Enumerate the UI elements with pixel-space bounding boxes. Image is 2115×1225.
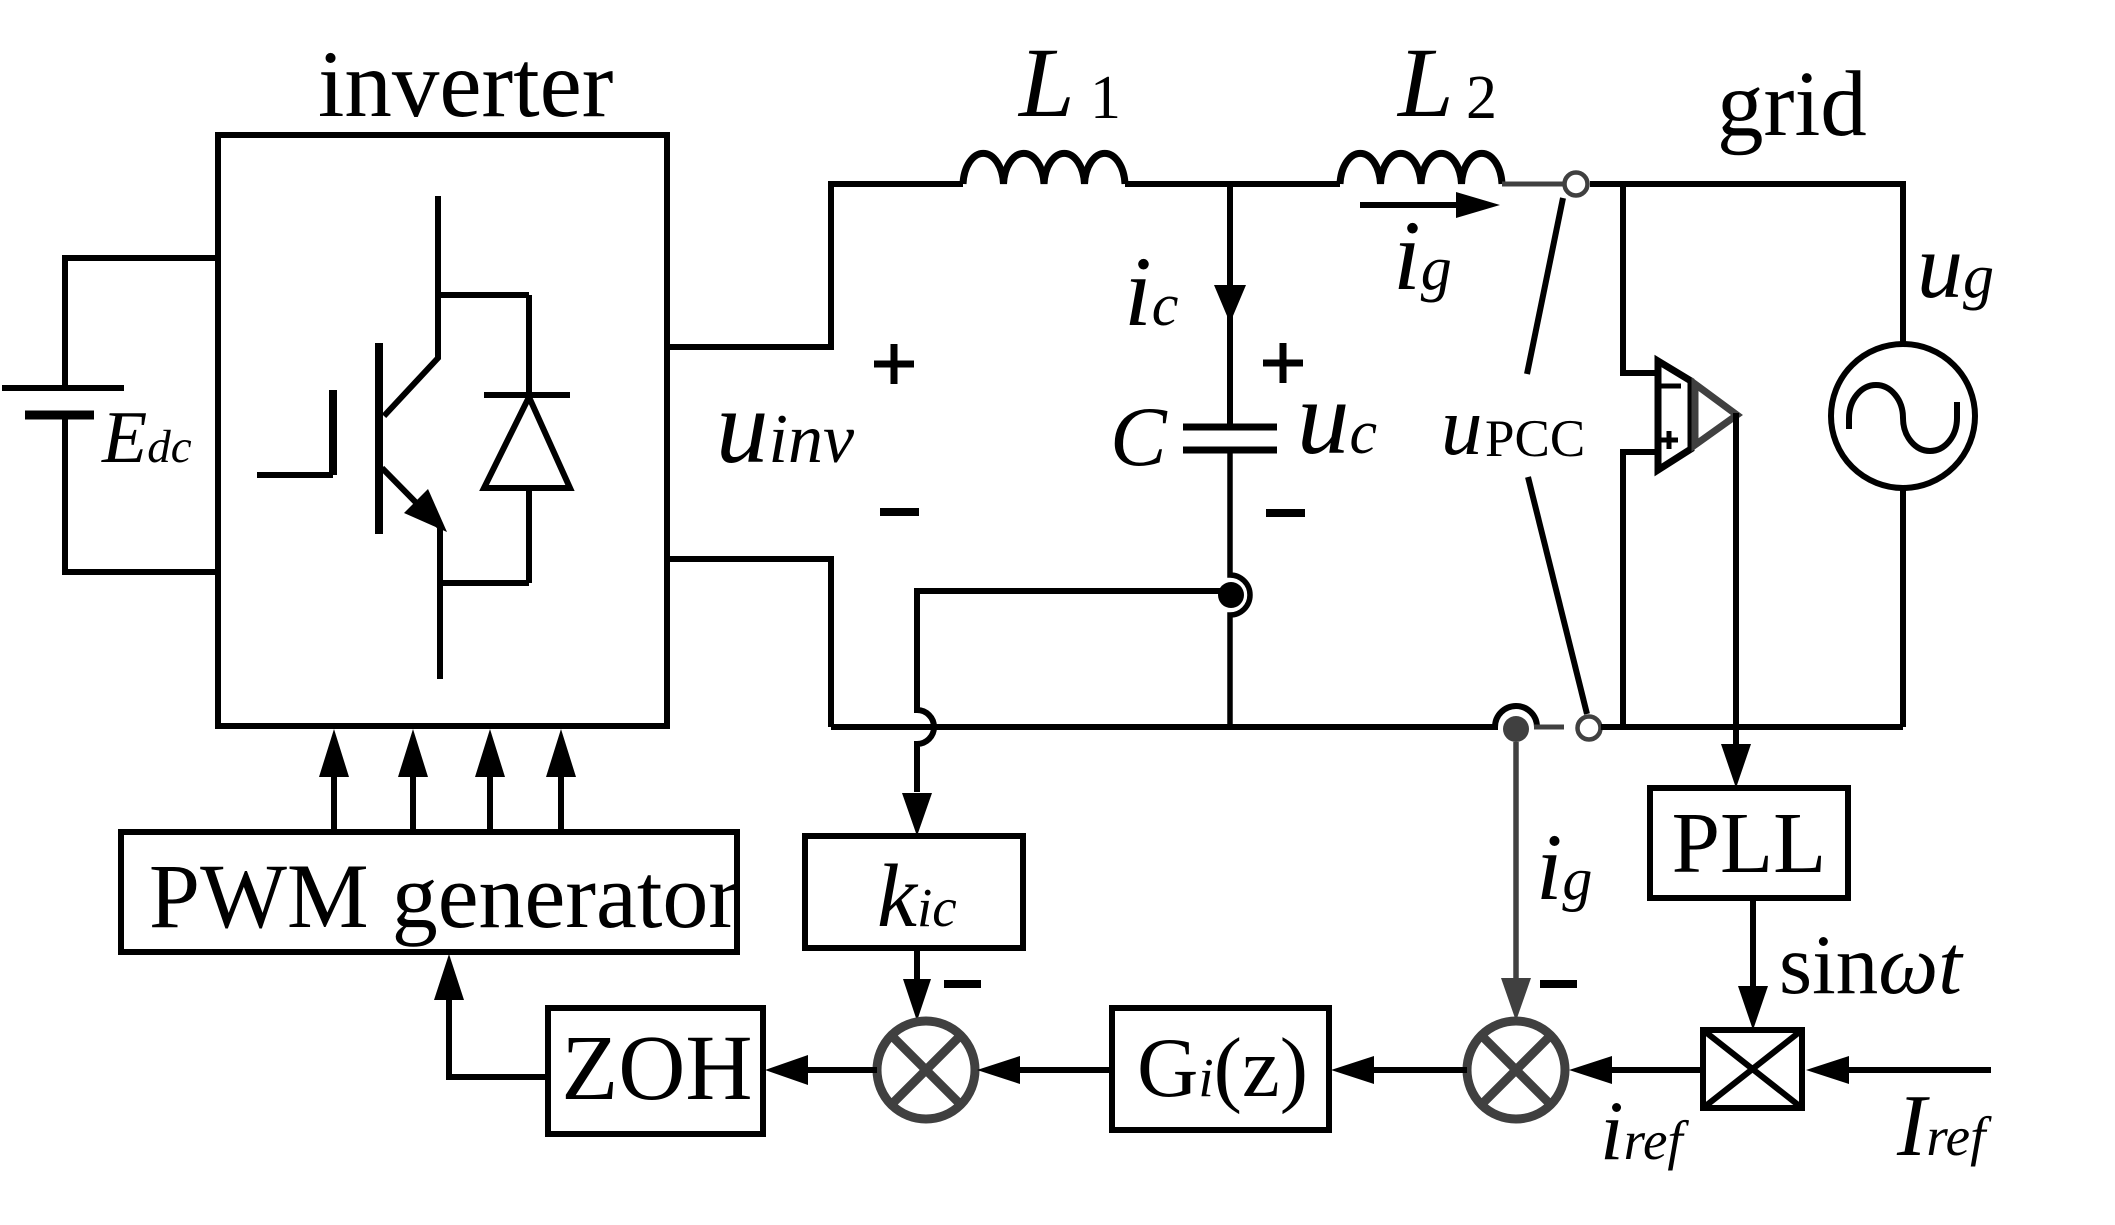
inductor L2 (1340, 153, 1502, 184)
wire capacitor tap to kic with hop over bus (902, 591, 1225, 836)
inverter block box (218, 135, 667, 726)
wire Iref into multiplier (1806, 1056, 1991, 1084)
wire gate drive arrow (319, 729, 349, 832)
wire gate drive arrow (546, 729, 576, 832)
DC source Edc short plate (25, 411, 94, 420)
svg-text:u: u (1441, 380, 1483, 472)
svg-text:grid: grid (1717, 53, 1867, 156)
wire battery negative to inverter (65, 418, 218, 572)
node switch lower terminal (1578, 717, 1601, 740)
label sensor plus (1660, 431, 1678, 449)
AC source sine wave (1849, 385, 1957, 451)
PWM generator box (121, 832, 737, 952)
DC source Edc long plate (2, 385, 124, 391)
svg-text:L: L (1017, 27, 1075, 138)
wire summing junction 1 to ZOH (765, 1055, 877, 1085)
label minus at summing junction 2 (1540, 980, 1577, 988)
wire gate drive arrow (398, 729, 428, 832)
summing junction S2 (circle with X) (1467, 1021, 1565, 1119)
svg-text:PWM generator: PWM generator (149, 845, 739, 947)
wire switch to grid top (1590, 184, 1903, 344)
svg-text:1: 1 (1090, 64, 1121, 132)
wire summing junction 2 to Gi(z) (1331, 1056, 1467, 1084)
label uinv plus (874, 344, 914, 384)
inductor L1 (963, 153, 1125, 184)
svg-text:C: C (1110, 390, 1168, 484)
wire gate drive arrow (475, 729, 505, 832)
capacitor C plates (1183, 427, 1277, 450)
svg-text:Gi(z): Gi(z) (1137, 1021, 1308, 1115)
PLL box (1650, 788, 1848, 898)
node ig tap dot (1503, 716, 1529, 742)
wire gray L2 to switch top terminal (1502, 182, 1564, 187)
wire kic to summing junction (903, 948, 931, 1021)
wire battery positive to inverter (65, 258, 218, 385)
wire PLL to multiplier (1738, 898, 1768, 1030)
wire Gi(z) to summing junction 1 (977, 1056, 1112, 1084)
label sensor minus (1661, 384, 1681, 389)
label minus at summing junction 1 (944, 980, 981, 988)
wire inverter output (+) to L1 (667, 184, 963, 347)
wire bottom bus with hop over ig tap (831, 706, 1537, 727)
wire gray ig feedback to summing junction 2 (1501, 742, 1531, 1021)
multiplier M1 box with X (1703, 1030, 1802, 1108)
op-amp U1 voltage sensor body (1658, 361, 1691, 470)
node capacitor current tap dot (1218, 582, 1244, 608)
ZOH box (548, 1008, 763, 1134)
wire capacitor branch with ic arrow (1214, 184, 1246, 427)
ig arrow on L2 output (1360, 192, 1500, 218)
wire gray link tap to switch terminal (1534, 725, 1564, 730)
svg-text:PCC: PCC (1485, 410, 1585, 468)
wire multiplier to summing junction 2 (1569, 1056, 1703, 1084)
node switch upper terminal (1565, 173, 1588, 196)
svg-text:PLL: PLL (1672, 794, 1827, 891)
transistor Q1 (IGBT) (257, 196, 529, 679)
kic gain box (805, 836, 1023, 948)
op-amp U1 gray output triangle (1695, 384, 1737, 445)
Gi(z) controller box (1112, 1008, 1329, 1130)
wire capacitor to bus with hop around tap dot (1230, 450, 1250, 727)
label uc minus (1266, 509, 1305, 517)
svg-text:sinωt: sinωt (1779, 918, 1964, 1012)
wire sensor minus input from PCC node (1623, 184, 1658, 373)
switch blade upper segment (1527, 198, 1563, 374)
svg-text:inverter: inverter (318, 31, 613, 137)
summing junction S1 (circle with X) (877, 1021, 975, 1119)
wire AC source to bus (1900, 488, 1906, 727)
switch blade lower segment (1528, 477, 1587, 714)
wire ZOH output to PWM generator (434, 954, 548, 1077)
wire L1 to capacitor node (1125, 181, 1340, 187)
svg-text:ZOH: ZOH (561, 1017, 752, 1120)
wire sensor plus input from bus (1623, 452, 1658, 727)
diode D1 (freewheeling) (484, 295, 570, 583)
label uc plus (1263, 343, 1303, 383)
svg-text:L: L (1396, 27, 1454, 138)
AC source ug circle (1831, 344, 1975, 488)
wire inverter return (-) to bottom bus (667, 559, 831, 727)
wire bus right of switch to grid (1601, 724, 1903, 730)
wire sensor output to PLL (1721, 413, 1751, 788)
label uinv minus (880, 508, 919, 516)
svg-text:2: 2 (1466, 64, 1497, 132)
